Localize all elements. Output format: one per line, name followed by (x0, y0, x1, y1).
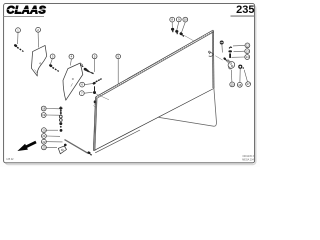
panel 1 inner mark (35, 70, 38, 74)
left edge hatch texture (94, 98, 96, 151)
small washer (243, 67, 245, 69)
top edge hatch texture (96, 31, 213, 98)
bolt at panel top-left corner (94, 86, 95, 91)
screw 1 (13, 44, 23, 52)
screw train top right (223, 57, 227, 61)
screw 6 (92, 78, 102, 85)
lower nut (60, 129, 63, 132)
bolt on left edge (94, 100, 96, 103)
main panel right edge (double) (212, 30, 215, 88)
svg-text:12: 12 (246, 44, 250, 48)
svg-text:21: 21 (42, 134, 46, 138)
bolt 14 (vertical) (229, 53, 231, 58)
svg-text:22: 22 (42, 140, 46, 144)
rod pointing to panel corner (65, 140, 89, 154)
svg-text:CLAAS: CLAAS (7, 5, 47, 17)
svg-text:23: 23 (42, 146, 46, 150)
svg-text:13: 13 (246, 49, 250, 53)
border frame (4, 4, 255, 163)
svg-text:17: 17 (247, 82, 251, 86)
nut 7 (93, 91, 96, 94)
leader from nut to panel (96, 94, 110, 100)
svg-text:MEGA 204: MEGA 204 (242, 158, 254, 161)
CLAAS logo (7, 5, 48, 17)
screw 8 (171, 28, 174, 32)
rear stay / leg outline (158, 88, 216, 126)
svg-text:20: 20 (42, 128, 46, 132)
main panel top edge (double) (96, 30, 213, 97)
small washer above screw train (80, 64, 82, 66)
main panel bottom edge (94, 89, 214, 151)
bottom-left extra edge line (95, 130, 140, 153)
page shadow (5, 5, 256, 164)
screw 9 (175, 30, 178, 34)
panel 2 hole (72, 78, 73, 79)
screw train between panel2 and main panel corner (83, 67, 94, 74)
bolt 13 (228, 50, 232, 52)
screw 3 (49, 64, 60, 72)
svg-text:19: 19 (42, 113, 46, 117)
svg-text:235: 235 (236, 4, 254, 16)
washers under bolt (59, 115, 62, 118)
leader from panel edge to screw train (215, 56, 222, 60)
main panel left edge (double) (93, 97, 95, 151)
svg-text:14: 14 (246, 55, 250, 59)
svg-text:18: 18 (42, 107, 46, 111)
bolt at panel bottom-left corner (87, 151, 92, 156)
svg-text:135 02: 135 02 (6, 158, 14, 161)
nut (59, 122, 62, 125)
svg-text:10: 10 (184, 18, 188, 22)
svg-text:16: 16 (238, 83, 242, 87)
logo underline (4, 15, 44, 17)
small bolt head on rod (64, 144, 67, 147)
panel 1 hole (40, 63, 41, 64)
screw 10 (179, 32, 184, 37)
page number underline (231, 15, 255, 17)
svg-text:15: 15 (231, 83, 235, 87)
hole on left edge (94, 105, 96, 107)
bolt 12 (small angle clip) (229, 47, 232, 48)
leader from screw10 to panel edge (185, 36, 195, 41)
bolt tip (60, 126, 62, 128)
flanged nut near top right corner (220, 41, 223, 53)
nut right of bracket (239, 65, 242, 68)
long bolt (59, 106, 62, 114)
bottom bracket plate (58, 146, 66, 154)
panel 2 inner mark (71, 83, 73, 86)
